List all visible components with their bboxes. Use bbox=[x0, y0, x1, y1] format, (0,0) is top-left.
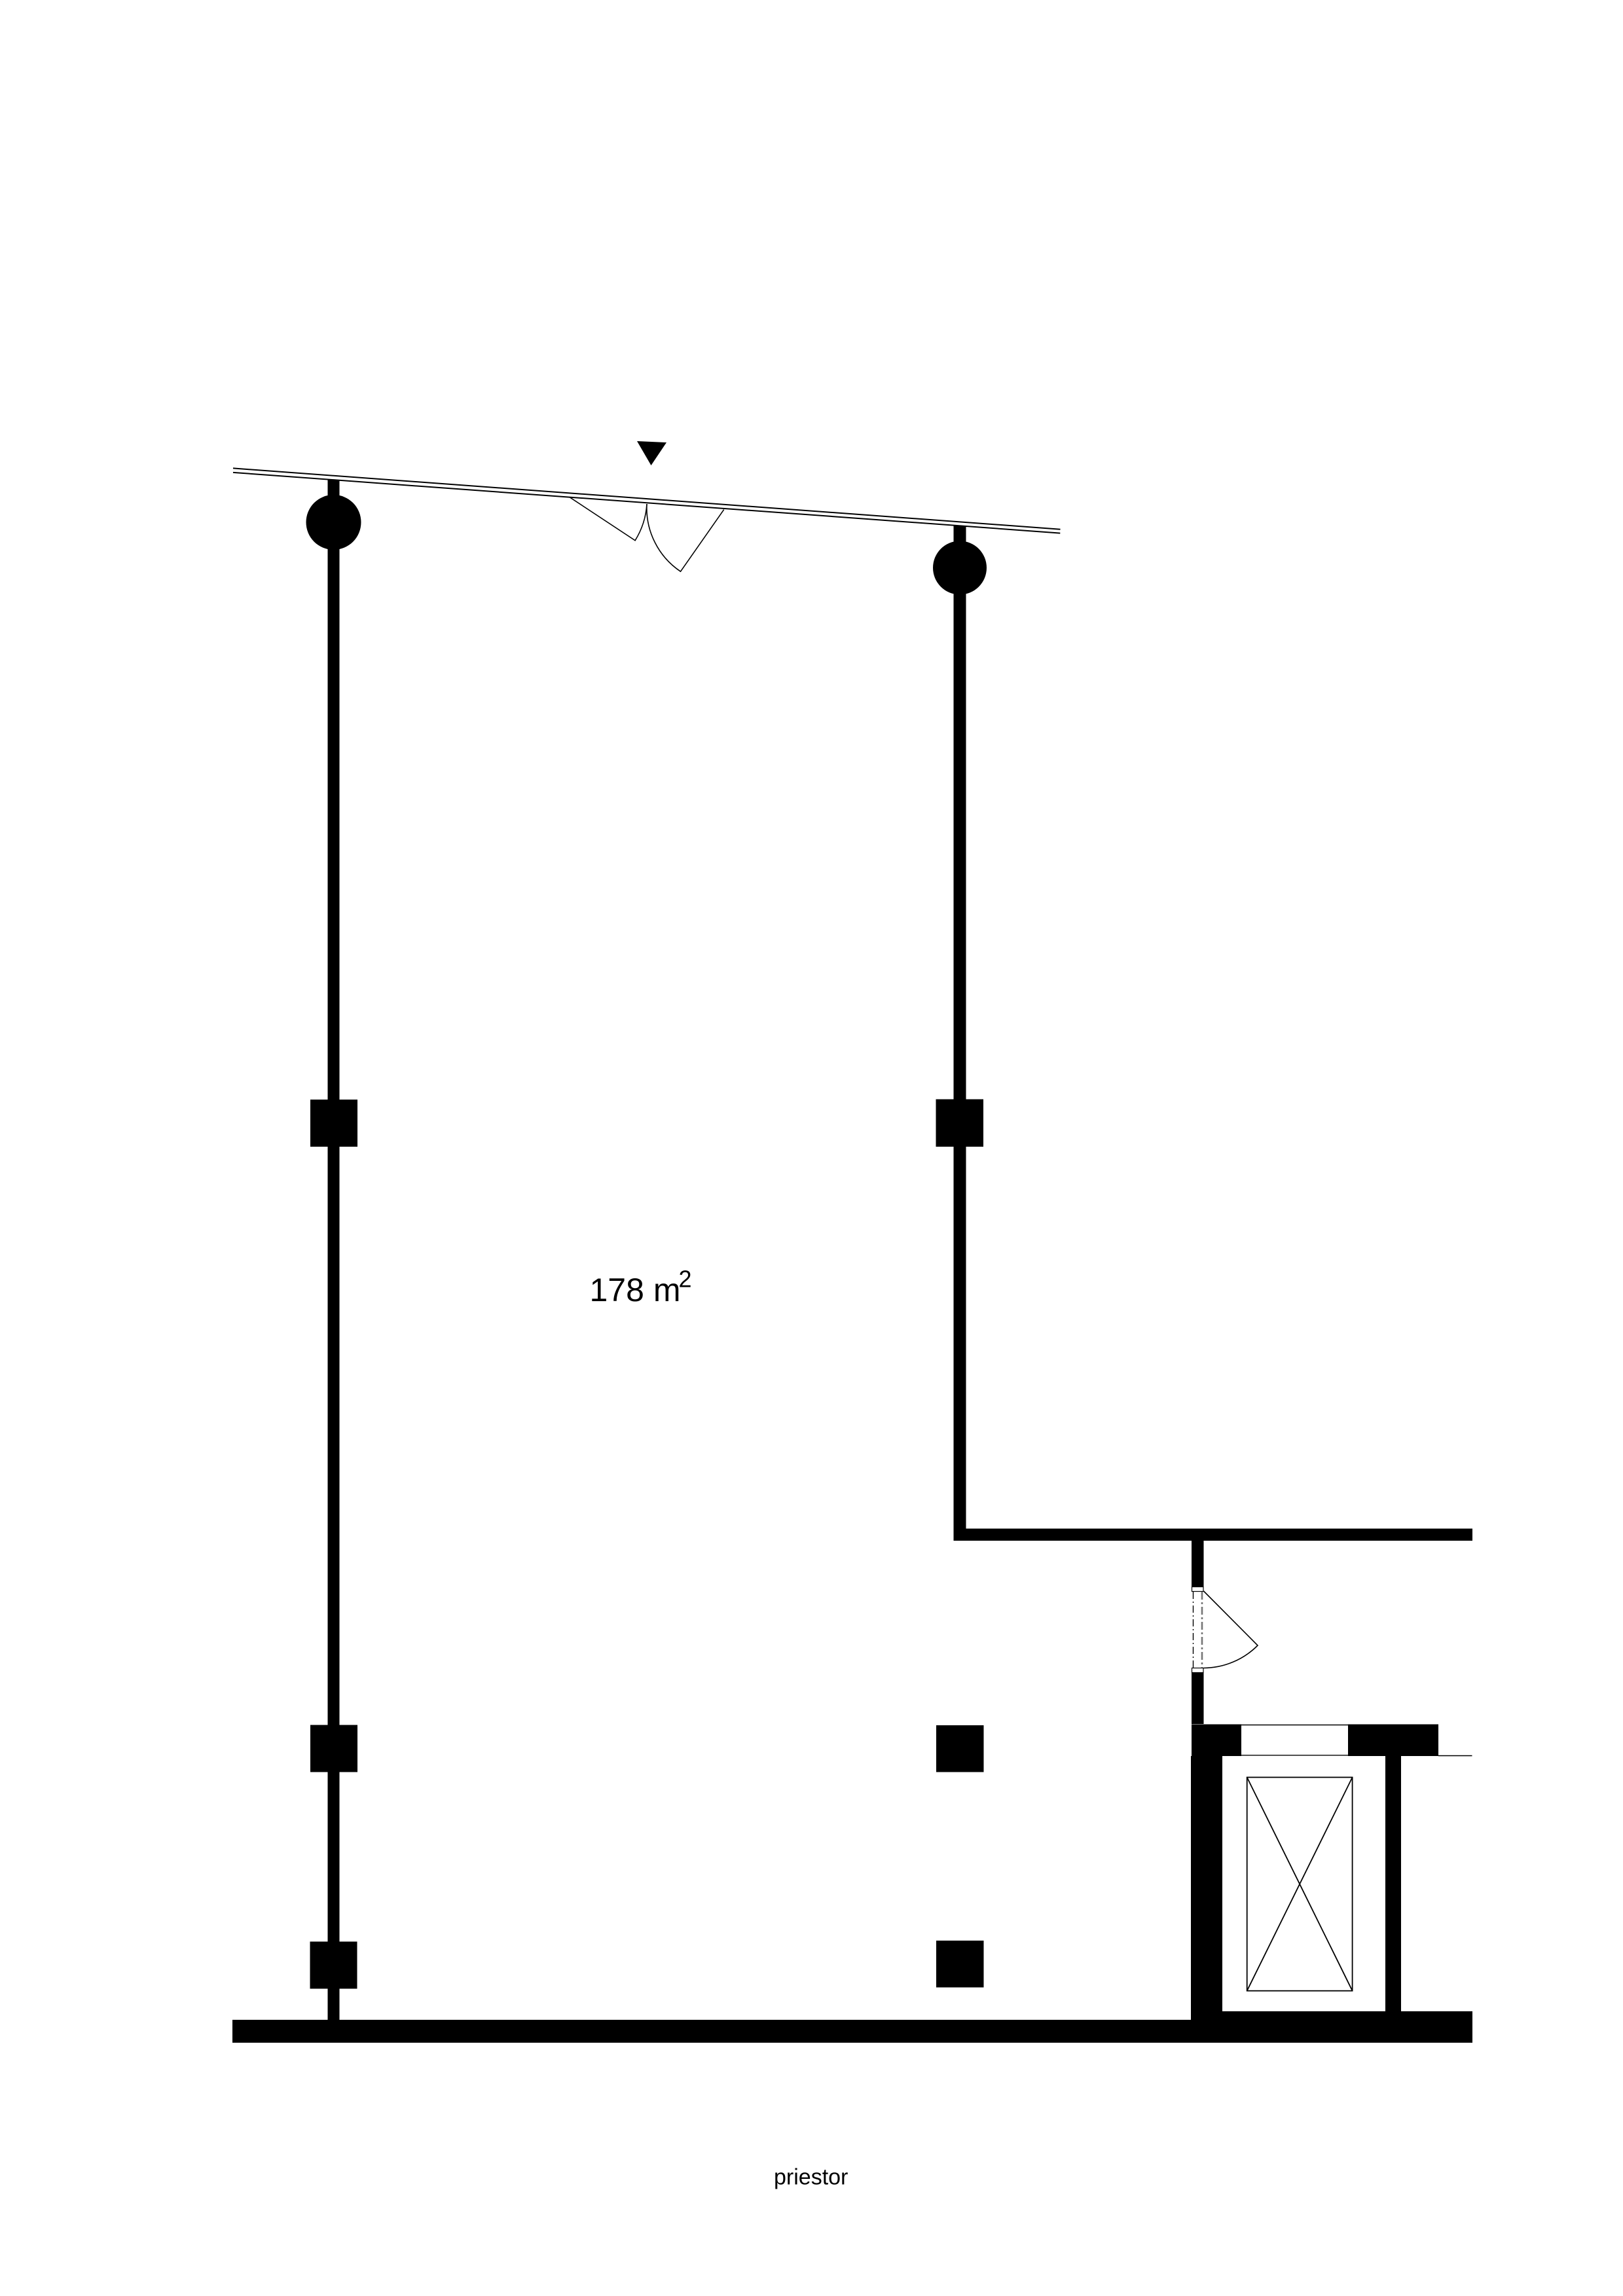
svg-text:2: 2 bbox=[679, 1266, 692, 1293]
svg-text:178 m: 178 m bbox=[590, 1272, 681, 1308]
svg-text:priestor: priestor bbox=[774, 2165, 848, 2190]
